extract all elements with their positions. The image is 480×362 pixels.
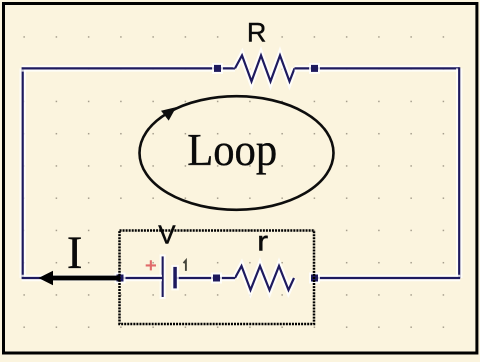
resistor R xyxy=(235,55,295,81)
current arrow I head xyxy=(39,271,54,285)
loop direction arrowhead xyxy=(161,107,176,121)
wire: bottom horizontal from right corner to resistor r right terminal xyxy=(314,275,460,281)
node: junction between battery and resistor r xyxy=(211,273,222,284)
node: R left terminal xyxy=(212,63,223,74)
wire: left vertical segment of loop xyxy=(20,67,26,278)
battery V negative plate xyxy=(171,265,179,291)
svg-text:R: R xyxy=(247,18,267,48)
svg-text:Loop: Loop xyxy=(187,124,277,175)
enclosure dotted box around battery V and internal resistance r xyxy=(120,231,315,325)
wire: top horizontal from left corner to resistor R left terminal xyxy=(22,65,235,71)
battery V positive plate xyxy=(160,254,166,299)
node: battery left terminal xyxy=(115,273,126,284)
node: R right terminal xyxy=(309,63,320,74)
wire: from resistor R right lead to top-right corner xyxy=(295,65,460,71)
battery pin number 1 xyxy=(184,260,186,271)
svg-text:I: I xyxy=(67,228,83,279)
battery V plus sign xyxy=(146,260,156,270)
node: r right terminal xyxy=(309,273,320,284)
loop ellipse xyxy=(140,96,334,210)
wire: from battery V positive plate to left corner xyxy=(22,275,162,281)
wire: between battery V and resistor r xyxy=(177,275,236,281)
resistor r xyxy=(235,266,294,290)
current arrow I shaft xyxy=(51,276,120,281)
svg-text:V: V xyxy=(158,220,176,250)
wire: right vertical segment of loop xyxy=(456,67,462,278)
